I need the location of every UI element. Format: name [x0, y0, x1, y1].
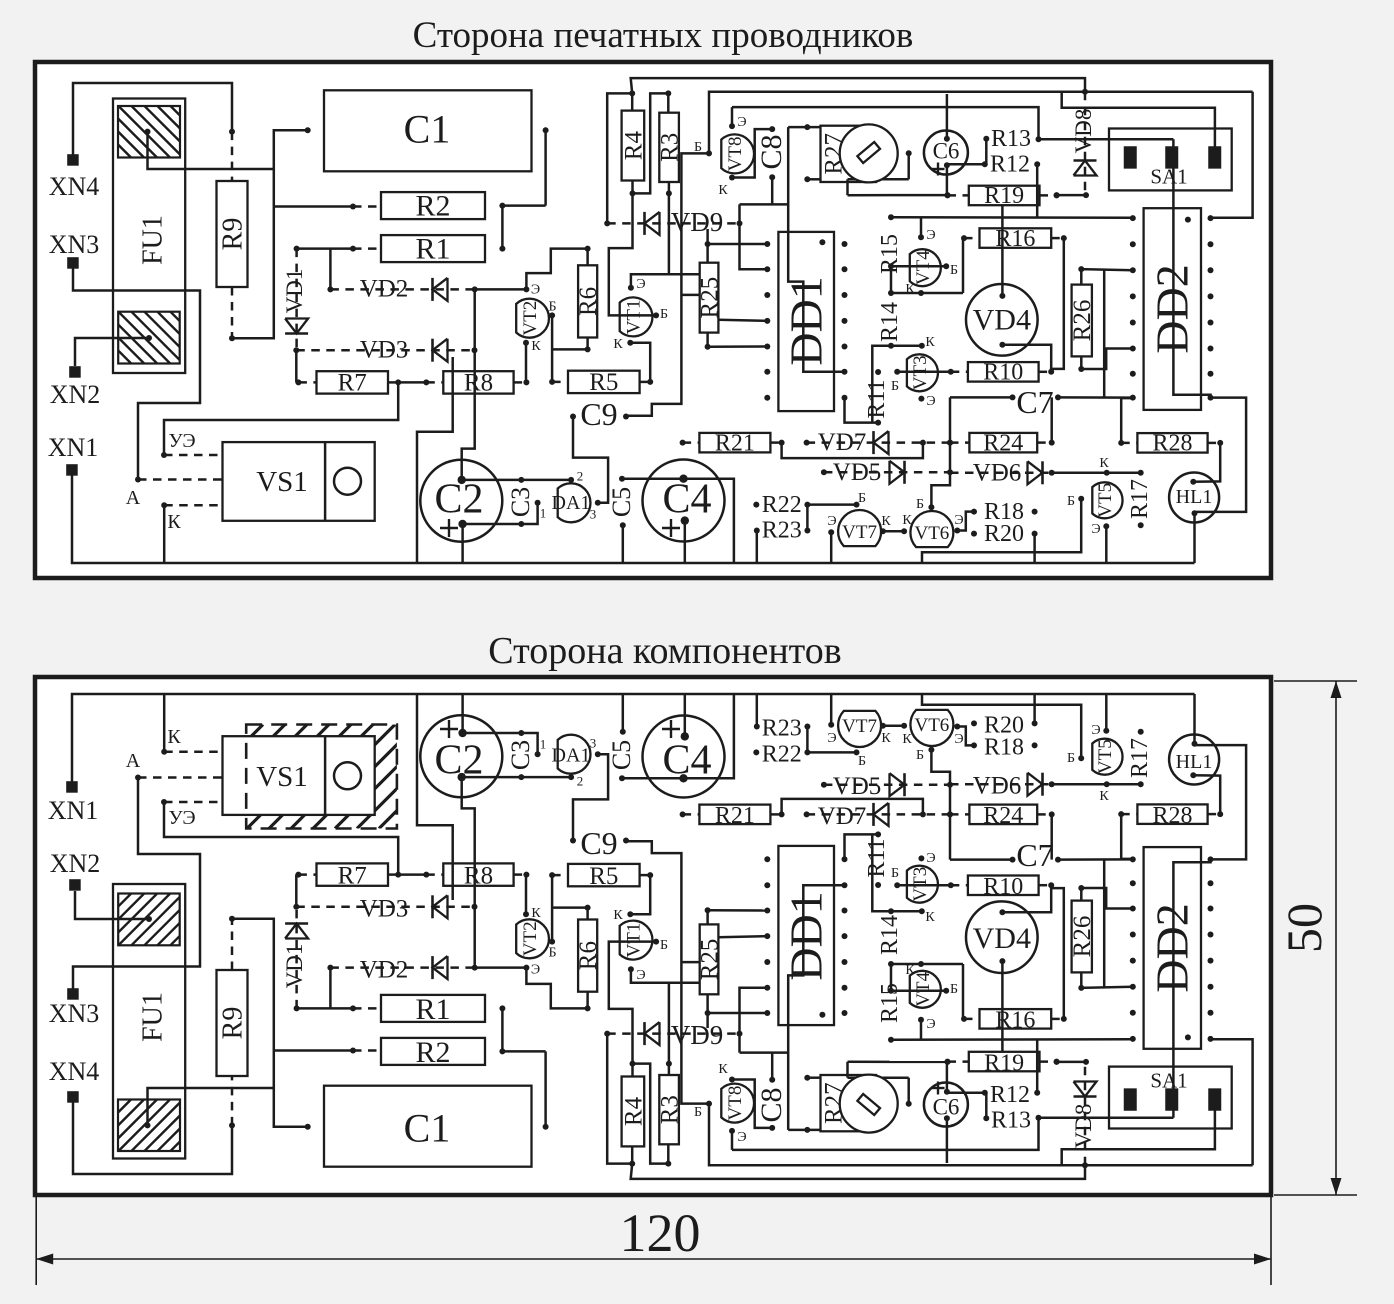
wire	[609, 942, 656, 1064]
wire	[1193, 694, 1196, 744]
svg-text:VD7: VD7	[818, 429, 867, 456]
wire	[274, 204, 381, 210]
wire	[148, 1088, 274, 1125]
wire	[731, 1131, 734, 1150]
wire	[551, 875, 554, 942]
wire	[771, 177, 774, 204]
svg-text:К: К	[613, 908, 623, 923]
diode VD1	[282, 907, 308, 1012]
resistor R28	[1118, 431, 1223, 457]
transistor VT3	[907, 866, 938, 925]
svg-text:DD1: DD1	[781, 276, 832, 365]
svg-text:Э: Э	[636, 968, 645, 983]
svg-text:XN2: XN2	[50, 849, 101, 878]
resistor R17	[1127, 470, 1153, 529]
wire	[75, 891, 149, 919]
wire	[72, 694, 1195, 782]
svg-text:К: К	[613, 337, 623, 352]
transistor VT3 pins	[891, 369, 936, 409]
wire	[883, 724, 904, 727]
wire	[985, 139, 988, 165]
transistor VT2	[516, 282, 549, 337]
resistor R12	[982, 152, 1040, 178]
wire	[1103, 270, 1106, 398]
wire	[622, 479, 734, 563]
svg-text:C7: C7	[1016, 837, 1053, 873]
wire	[907, 1078, 910, 1104]
wire	[1058, 396, 1133, 399]
wire	[756, 531, 759, 564]
node К	[161, 694, 222, 755]
diode VD2	[327, 956, 477, 983]
svg-text:C9: C9	[580, 396, 617, 432]
svg-text:К: К	[905, 963, 915, 978]
resistor R7	[295, 369, 401, 396]
dimension 50	[1274, 681, 1357, 1195]
resistor R22	[753, 742, 810, 768]
wire	[782, 440, 926, 459]
svg-text:Э: Э	[827, 731, 836, 746]
resistor R16	[961, 1008, 1067, 1034]
wire	[1212, 1039, 1253, 1165]
svg-text:К: К	[531, 339, 541, 354]
wire	[709, 92, 1253, 154]
svg-text:R17: R17	[1127, 479, 1153, 519]
wire	[630, 1061, 636, 1077]
svg-text:К: К	[905, 282, 915, 297]
svg-text:50: 50	[1276, 903, 1332, 953]
capacitor C6	[924, 131, 968, 176]
capacitor C2	[420, 460, 502, 542]
resistor R15	[877, 214, 903, 274]
fuse FU1	[66, 99, 235, 374]
resistor R10	[948, 874, 1054, 900]
IC DD2	[1130, 208, 1214, 410]
wire	[756, 694, 759, 727]
wire	[830, 532, 833, 563]
diode VD2	[327, 276, 477, 303]
wire	[705, 241, 768, 247]
wire	[1050, 397, 1053, 442]
transistor VT8 pins	[694, 140, 735, 198]
resistor R17	[1127, 729, 1153, 788]
transistor VT5 pins	[1067, 723, 1109, 766]
wire	[872, 346, 891, 423]
wire	[631, 78, 1088, 95]
wire	[1001, 961, 1004, 1052]
svg-text:К: К	[1099, 789, 1109, 804]
resistor R21	[680, 430, 785, 456]
svg-text:R8: R8	[464, 369, 493, 396]
resistor R21	[680, 803, 785, 829]
transistor VT5	[1092, 739, 1122, 804]
wire	[329, 968, 332, 1009]
svg-text:R22: R22	[762, 492, 802, 518]
wire	[890, 266, 893, 293]
wire	[525, 343, 528, 383]
wire	[1195, 745, 1247, 859]
svg-text:R26: R26	[1069, 916, 1096, 958]
connector XN3	[49, 230, 100, 269]
wire	[807, 503, 856, 506]
svg-text:Э: Э	[737, 1130, 746, 1145]
svg-text:XN4: XN4	[49, 1057, 100, 1086]
wire	[706, 1013, 709, 1028]
wire	[1054, 1059, 1089, 1065]
wire	[872, 834, 891, 911]
op-amp DA1	[535, 468, 601, 522]
svg-text:VD3: VD3	[360, 896, 409, 923]
wire	[848, 1076, 909, 1079]
IC DD2	[1130, 847, 1214, 1049]
wire	[708, 345, 768, 348]
transistor VT8	[721, 115, 754, 174]
svg-text:R20: R20	[984, 713, 1024, 739]
svg-text:R8: R8	[464, 863, 493, 890]
diode VD1	[282, 246, 308, 351]
wire	[848, 178, 909, 181]
wire	[1105, 694, 1108, 731]
fuse FU1	[66, 884, 235, 1159]
svg-text:К: К	[1099, 456, 1109, 471]
wire	[731, 107, 734, 126]
svg-text:R26: R26	[1069, 300, 1096, 342]
svg-text:УЭ: УЭ	[168, 430, 195, 452]
svg-text:VT8: VT8	[725, 136, 746, 171]
svg-text:R12: R12	[990, 1082, 1030, 1108]
wire	[75, 338, 149, 366]
wire	[274, 1048, 381, 1054]
wire	[709, 1104, 1253, 1166]
svg-text:VT1: VT1	[624, 299, 645, 334]
wire	[1002, 885, 1051, 912]
wire	[1121, 398, 1133, 443]
transistor VT1 pins	[613, 307, 668, 352]
switch SA1	[1109, 129, 1232, 191]
wire	[552, 338, 591, 353]
diode VD5	[821, 773, 953, 800]
wire	[295, 350, 298, 382]
svg-text:Б: Б	[694, 1105, 702, 1120]
diode VD6	[950, 773, 1052, 800]
svg-text:R17: R17	[1127, 738, 1153, 778]
resistor R26	[1069, 285, 1096, 357]
wire	[526, 249, 587, 290]
wire	[622, 694, 625, 732]
svg-text:FU1: FU1	[138, 215, 169, 265]
resistor R19	[945, 183, 1060, 209]
svg-text:C3: C3	[506, 487, 535, 517]
wire	[681, 961, 699, 964]
wire	[573, 754, 608, 840]
svg-text:R12: R12	[990, 152, 1030, 178]
capacitor C1	[305, 90, 549, 171]
svg-text:XN3: XN3	[49, 999, 100, 1028]
svg-text:К: К	[718, 183, 728, 198]
wire	[1036, 136, 1174, 142]
svg-text:C5: C5	[607, 740, 636, 770]
svg-text:Э: Э	[531, 962, 540, 977]
svg-text:Б: Б	[548, 945, 556, 960]
wire	[985, 1093, 988, 1119]
svg-text:2: 2	[577, 773, 584, 788]
transistor VT4	[910, 971, 941, 1032]
svg-text:Б: Б	[891, 866, 899, 881]
wire	[1195, 398, 1247, 512]
svg-text:VD3: VD3	[360, 337, 409, 364]
wire	[846, 1062, 849, 1078]
svg-text:C4: C4	[662, 476, 711, 522]
wire	[668, 1064, 671, 1076]
wire	[665, 90, 671, 112]
svg-text:R23: R23	[762, 518, 802, 544]
transistor VT2 pins	[523, 906, 557, 961]
svg-text:VT5: VT5	[1095, 483, 1116, 518]
wire	[740, 1051, 789, 1054]
svg-text:VT6: VT6	[914, 523, 949, 544]
svg-text:R15: R15	[877, 983, 903, 1023]
wire	[922, 499, 1081, 563]
wire	[740, 203, 789, 206]
wire	[295, 875, 298, 907]
node A	[126, 477, 223, 509]
resistor R13	[983, 126, 1031, 152]
svg-text:VT1: VT1	[624, 923, 645, 958]
svg-text:DD2: DD2	[1147, 903, 1198, 992]
wire	[573, 417, 608, 503]
transistor VT8	[721, 1084, 754, 1145]
wire	[718, 936, 767, 937]
wire	[1062, 92, 1215, 148]
transistor VT8 pins	[694, 1062, 735, 1120]
resistor R3	[657, 113, 684, 182]
resistor R24	[947, 430, 1055, 456]
resistor R25	[697, 263, 724, 333]
diode VD6	[950, 459, 1052, 486]
connector XN1	[48, 433, 99, 476]
wire	[883, 530, 904, 533]
svg-text:VS1: VS1	[256, 466, 308, 498]
svg-text:VD9: VD9	[671, 207, 724, 237]
svg-text:R24: R24	[983, 430, 1023, 456]
wire	[922, 694, 1081, 758]
wire	[1001, 205, 1004, 296]
wire	[830, 694, 833, 725]
wire	[1036, 164, 1039, 217]
connector XN1	[48, 781, 99, 825]
wire	[462, 479, 571, 482]
svg-text:R7: R7	[338, 863, 367, 890]
wire	[891, 344, 922, 347]
svg-text:R20: R20	[984, 521, 1024, 547]
svg-text:R9: R9	[218, 1007, 249, 1040]
svg-text:R14: R14	[877, 302, 903, 342]
switch SA1	[1109, 1067, 1232, 1129]
svg-text:DD1: DD1	[781, 891, 832, 980]
svg-text:К: К	[902, 732, 912, 747]
svg-text:Б: Б	[660, 307, 668, 322]
svg-text:Э: Э	[954, 732, 963, 747]
wire	[804, 1075, 820, 1081]
wire	[946, 165, 949, 195]
wire	[633, 1064, 669, 1164]
wire	[625, 153, 709, 415]
svg-text:R25: R25	[697, 277, 724, 319]
transistor VT6	[910, 497, 953, 547]
wire	[684, 694, 687, 736]
node К	[161, 502, 222, 563]
wire	[848, 192, 951, 198]
transistor VT5	[1092, 456, 1122, 519]
svg-text:1: 1	[540, 505, 547, 520]
wire	[947, 163, 985, 166]
svg-text:R16: R16	[995, 1008, 1035, 1034]
svg-text:R6: R6	[575, 287, 602, 316]
wire	[1103, 859, 1106, 987]
svg-text:Э: Э	[1091, 522, 1100, 537]
wire	[946, 1118, 949, 1163]
wire	[1105, 526, 1108, 563]
svg-text:C6: C6	[933, 138, 960, 163]
wire	[950, 858, 1013, 861]
wire	[461, 694, 464, 733]
wire	[1049, 781, 1141, 787]
wire	[891, 292, 963, 295]
svg-text:DA1: DA1	[552, 745, 591, 767]
diode VD8	[1071, 1062, 1097, 1165]
diode VD8	[1071, 92, 1097, 195]
wire	[631, 274, 669, 288]
svg-text:2: 2	[577, 468, 584, 483]
capacitor C7	[1010, 837, 1062, 873]
svg-text:Б: Б	[858, 754, 866, 769]
svg-text:C5: C5	[607, 487, 636, 517]
node УЭ	[161, 382, 398, 458]
wire	[920, 1020, 923, 1040]
resistor R7	[295, 863, 401, 890]
resistor R9	[217, 919, 249, 1126]
wire	[846, 179, 849, 195]
wire	[705, 907, 711, 924]
wire	[668, 181, 671, 193]
wire	[890, 964, 893, 991]
svg-text:R4: R4	[620, 131, 647, 161]
svg-text:Э: Э	[926, 1017, 935, 1032]
svg-text:SA1: SA1	[1150, 1069, 1187, 1093]
wire	[665, 1144, 671, 1166]
wire	[607, 1034, 632, 1164]
wire	[666, 983, 700, 1067]
svg-text:3: 3	[590, 506, 597, 521]
svg-text:Э: Э	[954, 513, 963, 528]
resistor R22	[753, 492, 810, 518]
capacitor C6	[924, 1082, 968, 1127]
connector XN2	[50, 366, 101, 409]
wire	[845, 398, 879, 423]
svg-text:R19: R19	[984, 1050, 1024, 1076]
wire	[631, 969, 669, 983]
wire	[957, 512, 974, 531]
resistor R23	[754, 716, 811, 742]
svg-text:К: К	[718, 1062, 728, 1077]
transistor VT2 pins	[523, 299, 557, 354]
wire	[633, 93, 669, 193]
wire	[706, 994, 709, 1013]
lamp HL1	[1169, 735, 1219, 785]
wire	[609, 193, 656, 315]
svg-text:R5: R5	[589, 863, 618, 890]
capacitor C3	[506, 477, 535, 527]
resistor R26	[1069, 901, 1096, 973]
wire	[1033, 534, 1036, 563]
svg-text:R3: R3	[657, 133, 684, 162]
IC DD1	[764, 232, 847, 411]
resistor R8	[423, 369, 529, 396]
svg-text:R10: R10	[983, 874, 1023, 900]
svg-text:Э: Э	[827, 514, 836, 529]
wire	[931, 750, 950, 785]
transistor VT2	[516, 919, 549, 977]
wire	[806, 727, 809, 753]
resistor R20	[971, 713, 1038, 739]
wire	[1078, 885, 1133, 909]
svg-text:VD8: VD8	[1071, 109, 1096, 154]
wire	[891, 265, 946, 268]
wire	[891, 990, 946, 993]
wire	[475, 288, 527, 291]
wire	[804, 176, 820, 182]
svg-text:R2: R2	[415, 1036, 450, 1069]
svg-text:Б: Б	[694, 140, 702, 155]
wire	[788, 127, 844, 372]
wire	[788, 124, 820, 130]
svg-text:VT3: VT3	[910, 867, 931, 902]
wire	[1193, 513, 1196, 563]
svg-text:Б: Б	[548, 299, 556, 314]
capacitor C5	[607, 476, 636, 529]
wire	[1050, 814, 1053, 859]
wire	[475, 966, 527, 969]
wire	[1062, 1110, 1215, 1166]
svg-text:R1: R1	[415, 232, 450, 265]
resistor R13	[983, 1107, 1031, 1133]
wire	[897, 884, 951, 887]
wire	[950, 396, 1013, 399]
resistor R19	[945, 1050, 1060, 1076]
wire	[229, 916, 308, 1127]
resistor R20	[971, 521, 1038, 547]
wire	[891, 1038, 1133, 1041]
svg-text:R4: R4	[620, 1096, 647, 1126]
wire	[552, 905, 591, 920]
svg-text:VD9: VD9	[671, 1020, 724, 1050]
transistor VT6 pins	[901, 723, 964, 747]
capacitor C8	[755, 1077, 788, 1131]
wire	[499, 206, 505, 252]
wire	[897, 371, 951, 374]
svg-text:VD6: VD6	[973, 459, 1022, 486]
transistor VT7 pins	[827, 514, 891, 536]
wire	[1173, 139, 1210, 397]
diode VD4	[966, 901, 1038, 973]
wire	[1078, 972, 1133, 991]
svg-text:R13: R13	[991, 126, 1031, 152]
resistor R4	[620, 1077, 647, 1147]
svg-text:FU1: FU1	[138, 992, 169, 1042]
wire	[462, 776, 571, 779]
resistor R8	[423, 863, 529, 890]
wire	[1051, 885, 1064, 1019]
